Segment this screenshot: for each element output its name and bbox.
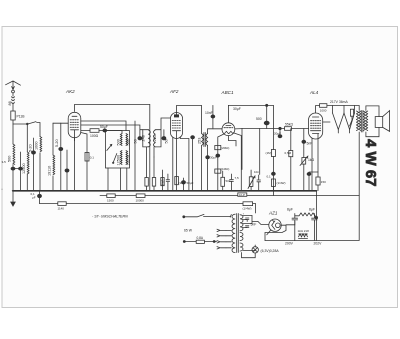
coupling cap 10nF right (257, 175, 261, 191)
coil 12500 (27, 152, 29, 174)
ABC1 anode line through (213, 128, 242, 130)
tube labels (65, 89, 319, 216)
lower rail (40, 203, 244, 205)
svg-text:5-20: 5-20 (55, 139, 59, 147)
IF2 primary coil (202, 134, 204, 146)
feedback resistor (350, 109, 353, 116)
svg-text:248: 248 (141, 135, 145, 141)
tube AZ1 (269, 219, 281, 231)
svg-text:150: 150 (321, 180, 326, 184)
fuse resistor P11B (11, 111, 15, 120)
mains line top with switch (184, 214, 231, 217)
AF2 grid cap wire to IF2 (177, 106, 202, 134)
svg-text:1000: 1000 (35, 142, 39, 150)
box bottom drops (108, 168, 127, 191)
heater / lamp bottom line (243, 245, 255, 251)
primary bottom to B+ rail (358, 132, 360, 196)
rotated value labels (8, 101, 202, 186)
cap 20uF at dot (279, 130, 281, 135)
HV taps to AZ1 caps (243, 216, 252, 228)
ABC1 anode wire (233, 133, 241, 191)
svg-text:500: 500 (256, 117, 262, 121)
bandfilter coil 19210 (126, 151, 128, 165)
svg-text:(1M): (1M) (266, 151, 272, 155)
field coil resistor network (299, 234, 308, 237)
mains line bottom with fuse (184, 241, 196, 243)
AL4 anode top wire (316, 106, 320, 114)
filter cap 2 (312, 216, 318, 222)
svg-text:3-5: 3-5 (2, 160, 7, 164)
wire trimmer pair (13, 168, 21, 170)
bandfilter coil 500 a (120, 134, 122, 146)
svg-text:1000: 1000 (320, 109, 327, 113)
ABC1 grid wire via top (228, 105, 273, 122)
transformer heater windings (240, 233, 243, 241)
IF1 secondary coil 253 (154, 130, 156, 147)
B+ vertical from bus end (315, 191, 317, 241)
resistor under box x154 (152, 178, 155, 187)
AK2 cathode wire (74, 138, 76, 191)
AF2 anode bend (180, 137, 189, 191)
svg-text:(2MΩ): (2MΩ) (221, 146, 229, 150)
ground (11, 191, 15, 206)
secondary to speaker loop bottom (366, 127, 379, 136)
AK2 top cap wire (75, 105, 150, 112)
svg-text:8μF: 8μF (287, 208, 293, 212)
coil 19110 (53, 155, 55, 175)
wire col x20 (20, 152, 22, 191)
svg-text:30μF: 30μF (233, 107, 241, 111)
tube ABC1 (222, 123, 235, 136)
small resistor x162 (161, 178, 164, 186)
svg-text:100Ω: 100Ω (90, 134, 99, 138)
dial lamp (252, 247, 258, 253)
cap 500pF AGC (264, 121, 269, 125)
AL4 cathode (309, 134, 318, 172)
pot 50k (221, 177, 225, 186)
antenna (6, 81, 21, 85)
wire col x33 (33, 138, 35, 191)
IF2 secondary coil 253 (206, 134, 208, 146)
AK2 anode side wires (81, 121, 126, 131)
lower rail resistor 1140 (58, 202, 66, 206)
AF2 cathode resistor 300 (175, 177, 179, 185)
coil L1 500 (13, 144, 15, 164)
svg-text:ABC1: ABC1 (221, 90, 234, 95)
svg-text:86: 86 (8, 101, 12, 105)
svg-text:50k: 50k (226, 179, 231, 183)
transformer primary winding (232, 214, 235, 252)
cathode resistor 150 (317, 172, 319, 177)
resistor under box x146.6 (145, 178, 148, 187)
AZ1 output wire (265, 225, 286, 240)
svg-text:55kΩ: 55kΩ (285, 123, 293, 127)
resistor 55k (285, 127, 292, 131)
box 10nF on rails (238, 193, 247, 196)
resistor 1M det (215, 169, 221, 173)
svg-text:P11B: P11B (17, 115, 26, 119)
svg-text:(1MΩ): (1MΩ) (221, 167, 229, 171)
bandfilter coil 500 b (126, 134, 128, 146)
trimmer cap 3-5 on L1 (11, 167, 15, 170)
small cap x167.8 (166, 174, 169, 191)
svg-text:217V 36mA: 217V 36mA (330, 100, 348, 104)
resistor 2M (215, 146, 221, 150)
wire x147.7 from top line to bus (149, 105, 151, 191)
svg-text:•: • (2, 187, 3, 191)
ABC1 heater wire (228, 136, 236, 146)
antenna plug socket (12, 90, 15, 93)
svg-text:5nF: 5nF (251, 223, 257, 227)
antenna coil 86 (12, 93, 15, 111)
svg-text:0,8A: 0,8A (197, 236, 204, 240)
band switch in box (113, 154, 117, 163)
svg-text:253: 253 (153, 135, 157, 141)
svg-text:- ST- UMSCHALTERN: - ST- UMSCHALTERN (92, 215, 128, 219)
output transformer T2 (361, 111, 363, 133)
resistor AGC lower (271, 179, 275, 186)
wire col x67 (66, 150, 68, 191)
svg-text:10nF: 10nF (205, 111, 213, 115)
svg-text:1kΩ 218: 1kΩ 218 (298, 229, 310, 233)
svg-text:50μF: 50μF (100, 125, 108, 129)
det caps pair (230, 174, 234, 191)
svg-text:19110: 19110 (48, 166, 52, 176)
AF2 cathode wires (173, 137, 177, 190)
resistor on lower rail end (243, 202, 253, 206)
tone pot 1k with arrow (302, 158, 306, 165)
svg-text:10000: 10000 (136, 199, 145, 203)
wire col x53 (52, 123, 54, 190)
detector chain wires (218, 134, 224, 191)
svg-text:AK2: AK2 (65, 89, 75, 94)
detector loop wires (242, 129, 260, 175)
bias rail (100, 195, 359, 197)
filter cap 1 (292, 216, 298, 222)
bias rail resistor 10000 (136, 194, 145, 198)
svg-text:4 W 67: 4 W 67 (362, 139, 379, 187)
band switch S1 (28, 122, 40, 124)
svg-text:500: 500 (126, 139, 130, 145)
svg-text:1kΩ: 1kΩ (308, 158, 315, 162)
svg-text:0,1: 0,1 (267, 175, 272, 179)
svg-text:10-P: 10-P (239, 193, 245, 197)
small value labels upright (2, 100, 349, 253)
trimmer arrow in box (107, 144, 112, 150)
svg-text:7,5: 7,5 (235, 176, 240, 180)
main chassis bus (13, 190, 317, 192)
svg-text:500: 500 (117, 139, 121, 145)
tube AF2 (170, 113, 182, 139)
svg-text:AZ1: AZ1 (268, 211, 278, 216)
svg-text:500: 500 (8, 156, 12, 162)
svg-text:50μF: 50μF (187, 181, 194, 185)
tube AL4 (309, 113, 323, 139)
padder cap 5-20 (32, 151, 36, 154)
bandfilter coil 12500 (120, 151, 122, 165)
AGC long vertical (272, 105, 274, 195)
bottom heater rail (265, 196, 359, 241)
svg-text:12500: 12500 (117, 155, 121, 166)
cap 50uF col x67 (65, 169, 69, 172)
IF2 core (204, 133, 205, 147)
IF1 primary trimmer (138, 137, 142, 140)
screen V wires (323, 121, 330, 123)
grid feed line to AL4 (242, 128, 285, 130)
AK2 screen wire (81, 133, 87, 191)
svg-text:50: 50 (134, 139, 138, 143)
AL4 tone cap 5nF (303, 129, 305, 141)
svg-text:(6,3V)0,28A: (6,3V)0,28A (261, 249, 280, 253)
cap 100pF (216, 154, 220, 157)
speaker hum coil (295, 213, 317, 217)
AF2 cathode bypass 50uF (182, 181, 186, 184)
cap 0.1 AGC (272, 172, 276, 175)
mains transformer core (237, 214, 239, 253)
wire grid line to AK2 (53, 122, 68, 124)
svg-text:AF2: AF2 (169, 89, 179, 94)
decoupling cap 50uF (103, 129, 107, 132)
tube AK2 (68, 112, 81, 137)
wire to output transformer (327, 106, 359, 111)
svg-text:10n: 10n (254, 170, 259, 174)
svg-text:μF: μF (32, 196, 36, 200)
coil 1000 (40, 137, 42, 152)
wire col x27 (26, 124, 28, 191)
svg-text:253: 253 (197, 138, 201, 144)
resistor 1M AGC (271, 150, 275, 157)
screen resistor 0.1M (85, 153, 89, 162)
svg-text:20μF: 20μF (274, 132, 281, 136)
svg-text:200V: 200V (285, 242, 294, 246)
resistor 0.5M (290, 129, 292, 151)
IF1 secondary trimmer (162, 137, 166, 140)
speaker LS (375, 117, 383, 128)
AF2 grid top cap (174, 115, 178, 117)
svg-text:(1/4): (1/4) (179, 181, 185, 185)
resistor 1000 anode stopper (320, 104, 327, 108)
cap 0.1uF bus to lower rail (39, 191, 41, 204)
cap 10nF on ABC1 top wire (211, 115, 215, 118)
wire long vertical x135 (134, 121, 136, 191)
grid2 resistor 100ohm (81, 130, 90, 132)
svg-text:202V: 202V (314, 242, 323, 246)
AF2 screen cap 50uF (191, 136, 195, 139)
svg-text:1140: 1140 (58, 207, 65, 211)
IF2 cap 30uF (206, 156, 210, 159)
wire col x60 (60, 123, 62, 190)
svg-text:5nF: 5nF (307, 142, 313, 146)
svg-text:0,1: 0,1 (90, 156, 95, 160)
cathode bypass 20uF (307, 172, 311, 175)
svg-text:8μF: 8μF (309, 208, 315, 212)
primary taps arrows (217, 229, 226, 231)
IF1 primary coil 248 (149, 130, 151, 147)
secondary to speaker loop top (366, 106, 379, 117)
svg-text:(1/4W): (1/4W) (277, 181, 286, 185)
bias rail resistor 1500 (107, 194, 115, 198)
svg-text:50: 50 (165, 139, 169, 143)
svg-text:1500: 1500 (107, 199, 114, 203)
note text (92, 215, 128, 219)
trimmer cap 3-5 second (19, 167, 23, 170)
transformer HV secondary (240, 215, 243, 231)
svg-text:0,5M: 0,5M (285, 151, 292, 155)
svg-text:AL4: AL4 (309, 90, 319, 95)
svg-text:30μF: 30μF (210, 156, 217, 160)
svg-text:(1W): (1W) (161, 180, 165, 187)
node A / wire to band switch (13, 123, 27, 125)
svg-text:12500: 12500 (22, 163, 26, 174)
wire antenna to bus (12, 120, 14, 191)
svg-text:65 W: 65 W (184, 229, 193, 233)
AL4 plate/pin drop (311, 139, 313, 191)
wire col x40 (39, 123, 41, 191)
svg-text:(1/4W): (1/4W) (243, 207, 252, 211)
bandfilter shield box (106, 131, 130, 168)
svg-text:19210: 19210 (126, 155, 130, 166)
volume pot with arrow (249, 177, 253, 187)
trimmer 5-20 col x60 (59, 147, 63, 150)
svg-text:5-20: 5-20 (28, 144, 32, 152)
